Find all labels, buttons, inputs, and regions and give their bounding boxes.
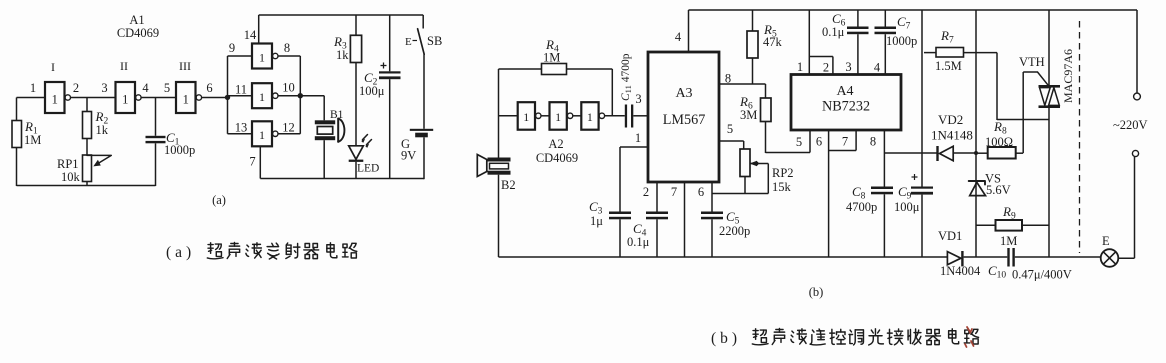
wire parallel-gate input bus (pins 9/11/13) [228,56,253,134]
svg-text:5: 5 [727,122,733,136]
svg-text:100μ: 100μ [894,200,920,214]
svg-text:4: 4 [874,61,881,75]
svg-text:5.6V: 5.6V [986,183,1011,197]
svg-text:LM567: LM567 [663,112,706,128]
svg-text:II: II [120,59,128,73]
svg-text:A1: A1 [129,13,144,27]
wire +9V top rail of transmitter [259,14,424,16]
svg-text:C9: C9 [898,184,912,202]
svg-text:3M: 3M [740,108,757,122]
svg-text:3: 3 [845,60,851,74]
wire A3 pin 1 to C3 [620,146,648,148]
svg-text:2200p: 2200p [719,224,750,238]
capacitor C7 1000p [874,10,917,75]
wire +V line (top rail to gate network) [975,10,977,181]
svg-text:LED: LED [357,163,379,175]
inverter gate of A1 pins 9-8 [229,28,290,69]
svg-text:10k: 10k [61,170,81,184]
wire R1 top to gate I input (pin 1) [17,97,46,99]
capacitor C10 0.47u/400V [988,248,1072,282]
svg-text:7: 7 [842,135,848,149]
svg-text:0.47μ/400V: 0.47μ/400V [1012,268,1072,282]
wire A4 pin 8 to VD2 node [883,130,885,187]
svg-text:8: 8 [870,135,876,149]
battery G 9V [401,54,433,179]
wire bottom rail VD1-C10 segment [964,256,1008,258]
svg-text:1: 1 [259,128,265,142]
node VD2/R8/VS junction [974,151,978,155]
svg-text:(b): (b) [711,330,741,347]
diode VD2 1N4148 [931,112,976,161]
wire A3 pin 5 to RP2 top [719,140,744,142]
svg-text:R7: R7 [940,28,954,46]
wire bottom rail of oscillator (R1/RP1/C1 common) [17,185,156,187]
svg-text:1M: 1M [1000,234,1017,248]
op-amp/IC A3 LM567 [648,52,719,182]
svg-text:CD4069: CD4069 [117,26,159,40]
svg-text:SB: SB [427,34,442,48]
wire R7 to triac gate node [996,53,998,120]
svg-text:1: 1 [122,93,128,107]
inverter gate 1 of A2 [518,102,541,130]
wire 0V bottom rail of transmitter [260,178,424,180]
svg-text:VD1: VD1 [938,229,962,243]
svg-text:E: E [405,36,412,48]
pushbutton switch SB [405,15,442,54]
wire bottom rail left segment [499,256,948,258]
svg-text:1: 1 [555,110,561,124]
svg-text:(a): (a) [212,193,226,207]
terminal ~220V upper [1134,93,1141,100]
svg-text:2: 2 [823,61,829,75]
wire A2 gate1 to gate2 [541,115,550,117]
ultrasonic transducer B1 [315,109,345,179]
svg-text:1M: 1M [24,133,41,147]
svg-text:RP1: RP1 [57,157,79,171]
svg-text:E: E [1102,234,1110,248]
svg-text:C10: C10 [988,263,1006,281]
svg-text:14: 14 [244,28,257,42]
svg-text:1: 1 [183,93,189,107]
svg-text:A4: A4 [836,84,853,99]
svg-text:4: 4 [675,30,682,44]
wire gate III output to driver input node [202,97,228,99]
triac VTH MAC97A6 [1019,10,1075,257]
svg-text:0.1μ: 0.1μ [627,235,650,249]
svg-text:III: III [179,59,191,73]
svg-text:1N4148: 1N4148 [931,128,973,143]
svg-text:NB7232: NB7232 [822,99,870,115]
resistor R9 1M [976,204,1049,248]
svg-text:1k: 1k [96,123,109,137]
svg-text:1000p: 1000p [164,143,195,157]
svg-text:1k: 1k [336,48,349,62]
node: gate III output feeding parallel gates [225,95,230,100]
capacitor C2 100u electrolytic [359,15,401,179]
svg-text:RP2: RP2 [772,166,794,180]
capacitor C11 4700p [620,53,648,127]
svg-text:C11 4700p: C11 4700p [620,53,633,101]
svg-text:13: 13 [235,121,248,135]
potentiometer RP2 15k [740,149,794,194]
svg-text:7: 7 [671,185,677,199]
svg-text:15k: 15k [772,180,792,194]
wire output node to transducer B1 [300,95,324,97]
svg-text:5: 5 [796,135,802,149]
svg-text:2: 2 [643,185,649,199]
wire A3 pin 8 to R5/R6 [719,83,766,85]
wire gate II output to gate III input [141,97,176,99]
svg-text:1: 1 [587,110,593,124]
wire gate I output to gate II input [71,97,116,99]
svg-text:1: 1 [259,90,265,104]
svg-text:A3: A3 [675,86,692,101]
svg-text:B1: B1 [330,109,344,121]
svg-text:47k: 47k [763,35,783,49]
svg-text:3: 3 [635,92,641,106]
svg-text:(b): (b) [809,285,824,299]
svg-text:11: 11 [235,83,247,97]
svg-text:9: 9 [229,41,235,55]
resistor R5 47k [747,10,783,84]
svg-text:1μ: 1μ [590,214,603,228]
svg-text:(a): (a) [166,244,195,261]
inverter gate U-III of A1 (pins 5-6) [164,59,213,113]
resistor R3 1k [333,15,362,146]
svg-text:C7: C7 [897,14,911,32]
svg-text:7: 7 [249,155,255,169]
wire A3 pin 4 to top rail [688,10,690,52]
ultrasonic receiver B2 [477,69,515,257]
op-amp-style inverter gate U-I of A1 (pins 1-2) [30,60,79,113]
svg-text:1.5M: 1.5M [935,59,962,73]
svg-text:1M: 1M [543,51,560,65]
svg-text:A2: A2 [548,137,563,151]
svg-text:1: 1 [52,93,58,107]
wire A4 pins 1+2 to top rail [797,10,833,75]
wire R6 bottom to A4 pin 5 [766,152,811,154]
svg-text:4: 4 [142,81,149,95]
resistor R7 1.5M [924,28,997,73]
svg-text:4700p: 4700p [846,200,877,214]
inverter gate of A1 pins 13-12 [235,121,295,169]
wire top rail to AC terminal [1136,10,1138,93]
svg-text:1000p: 1000p [886,34,917,48]
svg-text:6: 6 [698,185,704,199]
svg-text:C8: C8 [852,184,866,202]
svg-text:2: 2 [73,81,79,95]
svg-text:1: 1 [635,131,641,145]
svg-text:8: 8 [284,41,290,55]
svg-text:100Ω: 100Ω [985,135,1013,149]
zener diode VS 5.6V [969,172,1011,258]
svg-text:12: 12 [282,121,295,135]
wire A2 gate2 to gate3 [573,115,582,117]
svg-text:1: 1 [797,60,803,74]
svg-text:VTH: VTH [1019,55,1045,69]
wire A3 pin 7 to bottom rail [684,182,686,257]
potentiometer RP1 10k [57,155,111,186]
wire A4 pins 6+7 to bottom rail [816,130,856,257]
svg-text:I: I [51,60,55,74]
wire A3 pin 6 to RP2 bottom [712,193,768,195]
svg-text:VD2: VD2 [938,112,963,127]
node: paralleled outputs to B1 [298,93,303,98]
capacitor C6 0.1u [822,10,869,75]
wire pin 14 to +9V top rail [258,15,260,44]
svg-text:0.1μ: 0.1μ [822,25,845,39]
lamp E [1101,234,1119,267]
wire gate node to triac [1022,72,1024,153]
capacitor C3 1u [589,199,631,257]
svg-text:1: 1 [523,110,529,124]
svg-text:9V: 9V [401,149,416,163]
inverter gate 3 of A2 [581,102,604,130]
resistor R8 100ohm [976,119,1023,159]
capacitor C1 1000p [146,98,196,187]
wire lower terminal to lamp [1134,157,1136,258]
svg-text:8: 8 [725,72,731,86]
resistor R1 1M [12,98,41,187]
svg-text:6: 6 [206,81,212,95]
inverter gate of A1 pins 11-10 [235,81,295,109]
wire parallel-gate output bus (pins 8/10/12) [278,56,300,134]
svg-text:CD4069: CD4069 [536,151,578,165]
svg-text:B2: B2 [501,178,516,192]
svg-text:1N4004: 1N4004 [940,264,981,278]
IC A4 NB7232 [791,75,901,131]
wire +V top rail of receiver [689,9,1138,11]
svg-text:~220V: ~220V [1113,118,1148,132]
wire bottom rail C10-lamp segment [1015,256,1101,258]
resistor R6 3M [739,84,771,153]
dashed boundary line [1079,21,1081,253]
diode VD1 1N4004 [938,229,981,278]
wire A4 pin 5 stub [809,130,811,153]
resistor R2 1k [83,98,109,156]
svg-text:MAC97A6: MAC97A6 [1061,49,1075,103]
svg-text:5: 5 [164,81,170,95]
svg-text:6: 6 [816,135,822,149]
inverter gate U-II of A1 (pins 3-4) [101,59,149,113]
wire pin 7 to 0V bottom rail [259,146,261,178]
wire B2 to A2 input [499,115,518,117]
svg-text:R8: R8 [993,119,1007,137]
svg-text:1: 1 [259,51,265,65]
resistor R4 1M [499,37,613,116]
LED indicator [349,135,380,179]
capacitor C9 100u electrolytic [894,10,933,257]
svg-text:100μ: 100μ [359,84,385,98]
capacitor C5 2200p [698,182,750,257]
capacitor C8 4700p [846,184,893,257]
svg-text:1: 1 [30,81,36,95]
svg-text:R9: R9 [1002,204,1016,222]
inverter gate 2 of A2 [550,102,573,130]
svg-text:3: 3 [101,81,107,95]
svg-text:10: 10 [282,81,295,95]
capacitor C4 0.1u [627,182,668,257]
wire A2 output to C11 [605,115,625,117]
terminal ~220V lower [1132,150,1138,156]
